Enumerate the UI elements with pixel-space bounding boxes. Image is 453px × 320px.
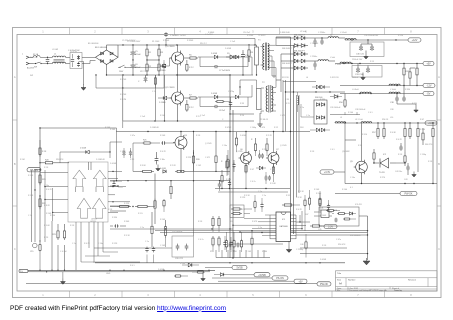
svg-text:Q C945: Q C945 — [236, 151, 243, 153]
svg-text:R 4.7K: R 4.7K — [46, 189, 53, 191]
svg-text:R 510: R 510 — [286, 195, 291, 197]
resistor R78 — [154, 75, 156, 88]
svg-text:R 2.2: R 2.2 — [286, 103, 291, 105]
svg-text:D 4148: D 4148 — [110, 163, 116, 165]
aux resistor R76 — [221, 170, 223, 188]
svg-text:Q5: Q5 — [350, 161, 354, 163]
svg-text:C 2200uF: C 2200uF — [310, 43, 319, 45]
wire horizontal mid — [123, 75, 254, 122]
svg-text:C20 1000uF: C20 1000uF — [172, 231, 183, 233]
svg-text:-5V: -5V — [427, 93, 431, 96]
svg-text:R 5.1K: R 5.1K — [124, 235, 131, 237]
svg-text:R 1K: R 1K — [310, 151, 315, 153]
svg-text:L2 5uH: L2 5uH — [300, 31, 307, 33]
svg-text:File:: File: — [337, 290, 341, 292]
opto coupler U1 — [314, 208, 332, 218]
svg-text:R 2.7K: R 2.7K — [266, 135, 273, 137]
svg-text:L 10uH: L 10uH — [335, 64, 342, 66]
choke L6 — [340, 62, 351, 63]
diode D6 — [235, 95, 248, 98]
snubber top loop — [164, 32, 255, 46]
resistor R23 — [52, 224, 59, 240]
svg-text:C 47u: C 47u — [336, 239, 341, 241]
svg-text:C5 220uF/200V: C5 220uF/200V — [122, 40, 136, 42]
svg-text:R 15: R 15 — [370, 61, 374, 63]
resistor R61 — [417, 123, 419, 139]
drive stage bottom wires — [215, 180, 290, 192]
svg-text:D 4148: D 4148 — [211, 93, 217, 95]
wire left column — [27, 170, 36, 242]
bulk capacitor C5 — [131, 45, 142, 61]
cap C26 — [260, 198, 263, 212]
svg-text:C43: C43 — [404, 179, 407, 181]
svg-text:C 150p: C 150p — [420, 154, 426, 156]
svg-text:T1: T1 — [258, 40, 261, 42]
wire x110 up — [110, 142, 122, 158]
net label E — [232, 265, 247, 269]
svg-text:R20: R20 — [45, 160, 50, 162]
svg-text:D 4148: D 4148 — [211, 53, 217, 55]
drive transistor Q7 C945 — [266, 132, 280, 173]
svg-text:Drawn by:: Drawn by: — [394, 290, 403, 292]
ground reg — [412, 172, 417, 177]
svg-text:R 5.6K: R 5.6K — [44, 225, 51, 227]
svg-text:C5: C5 — [135, 51, 138, 53]
svg-text:D 4148: D 4148 — [158, 269, 164, 271]
resistor bank R41 — [225, 232, 227, 252]
svg-text:PW-OK: PW-OK — [404, 193, 412, 196]
svg-text:D18: D18 — [300, 127, 303, 129]
svg-text:+5V: +5V — [298, 280, 303, 283]
wire +12V rail — [345, 39, 408, 40]
mag-amp coil L4 — [290, 92, 299, 112]
cap C17 — [110, 224, 126, 227]
net label +5V — [423, 61, 434, 65]
svg-text:C20 C21: C20 C21 — [175, 258, 184, 260]
svg-text:R9: R9 — [251, 52, 254, 54]
svg-text:L1: L1 — [54, 54, 57, 56]
svg-text:R25: R25 — [143, 140, 146, 142]
svg-text:2: 2 — [94, 29, 96, 33]
ground +5V — [361, 73, 366, 80]
choke L5 — [345, 39, 356, 40]
net label PW-OK — [335, 191, 417, 195]
filter cap C12 — [320, 37, 323, 45]
AC selector switch SW2 — [118, 65, 130, 73]
T2 aux winding rect — [257, 89, 262, 110]
svg-text:R 270: R 270 — [380, 177, 385, 179]
svg-text:C 2200u: C 2200u — [310, 56, 317, 58]
svg-text:C 1nF: C 1nF — [140, 116, 146, 118]
base resistor R7 — [184, 95, 198, 100]
svg-text:IC2: IC2 — [383, 154, 387, 156]
svg-text:C 2200u: C 2200u — [318, 32, 325, 34]
transistor Q1 C3039 — [165, 45, 184, 75]
resistor R29 — [154, 174, 156, 225]
svg-text:2: 2 — [94, 293, 96, 297]
svg-text:R 10K: R 10K — [316, 193, 322, 195]
svg-text:C 10n: C 10n — [350, 177, 355, 179]
rectifier D12 pair — [281, 51, 308, 56]
PWM IC1 KA7500B — [276, 212, 291, 242]
svg-text:C103: C103 — [118, 187, 123, 189]
svg-text:R 56K: R 56K — [110, 129, 116, 131]
drive cap C51 — [261, 153, 264, 158]
net label -12V — [423, 83, 435, 87]
svg-text:R 5.1K: R 5.1K — [298, 191, 305, 193]
wire opamp top — [39, 128, 40, 242]
drive resistor R70 — [251, 138, 257, 156]
svg-text:L: L — [22, 54, 24, 56]
net label PW-OK left — [19, 269, 28, 273]
svg-text:PS-ON: PS-ON — [276, 277, 284, 280]
svg-text:L10: L10 — [390, 117, 393, 119]
resistor bank R43 — [240, 232, 242, 252]
resistor R24 — [63, 224, 65, 240]
svg-text:R 2.2: R 2.2 — [189, 67, 194, 69]
snubber loop C7 — [200, 57, 248, 72]
drive transistor Q6 C945 — [239, 132, 252, 173]
ground +12V — [364, 51, 369, 59]
cap C27 — [327, 200, 330, 212]
svg-text:T2 EE-19: T2 EE-19 — [260, 119, 268, 121]
svg-text:R 8.2K: R 8.2K — [44, 205, 51, 207]
svg-text:R 47K: R 47K — [252, 221, 258, 223]
opamp lead wires down — [76, 222, 172, 270]
svg-text:R 4.7K: R 4.7K — [160, 151, 167, 153]
svg-text:R 12K: R 12K — [240, 197, 246, 199]
svg-text:R 3.9K: R 3.9K — [140, 165, 147, 167]
sense resistor R57 — [372, 123, 379, 139]
wire opamp outputs — [110, 180, 130, 211]
svg-text:SW: SW — [34, 67, 37, 69]
svg-text:GND: GND — [106, 273, 111, 275]
svg-text:R 39: R 39 — [240, 103, 244, 105]
diode D2 — [198, 53, 235, 59]
resistor R19 — [39, 140, 47, 157]
transistor Q3 C945 — [173, 132, 188, 172]
svg-text:+12V: +12V — [412, 39, 418, 42]
wire T2 secondary — [271, 80, 276, 111]
ground bottom — [201, 272, 206, 281]
X capacitor C1 — [46, 57, 50, 65]
net label -5V — [423, 91, 434, 95]
svg-text:4: 4 — [199, 29, 201, 33]
svg-text:R 4.7K: R 4.7K — [84, 243, 91, 245]
svg-text:R26: R26 — [196, 159, 201, 161]
ground standby — [363, 258, 370, 265]
resistor R34 — [218, 216, 220, 232]
svg-text:Size: Size — [337, 280, 342, 282]
rectifier D16 pair — [286, 91, 346, 92]
svg-text:R 220: R 220 — [262, 149, 267, 151]
load resistor R53 — [403, 64, 410, 86]
svg-text:B: B — [14, 162, 16, 166]
opamp left pins — [40, 173, 68, 213]
svg-text:2200uF 10V: 2200uF 10V — [352, 59, 363, 61]
svg-text:+5V: +5V — [426, 63, 431, 66]
svg-text:R56 1K: R56 1K — [382, 119, 389, 121]
cap C16 — [112, 181, 115, 187]
wire x193 — [193, 150, 195, 236]
resistor R26 — [192, 132, 200, 172]
diode D5b — [198, 93, 235, 99]
svg-text:C39 1000uF: C39 1000uF — [330, 107, 341, 109]
resistor R32 — [227, 150, 229, 175]
Y capacitors C3 C4 — [77, 55, 84, 85]
svg-text:T2: T2 — [262, 82, 265, 84]
wire y229 — [110, 228, 233, 229]
snubber resistor R9 — [248, 46, 254, 62]
neg rail resistor R56 — [339, 94, 346, 109]
svg-text:C:\Documents and Settings\ATX-: C:\Documents and Settings\ATX-PSU\Design… — [347, 289, 387, 292]
resistor R39 — [326, 209, 340, 211]
filter cap C11 — [313, 38, 316, 47]
svg-text:R3: R3 — [161, 52, 164, 54]
divider box2 — [230, 205, 252, 218]
svg-text:R 100: R 100 — [348, 112, 353, 114]
drive resistor R72 — [245, 164, 247, 181]
resistor R34b — [218, 236, 220, 252]
wire vertical rail D — [293, 45, 295, 234]
resistor R62 — [422, 128, 424, 145]
drive resistor R71 — [266, 138, 268, 156]
ground left bottom — [60, 272, 65, 284]
net label 3.3V right — [324, 224, 337, 228]
svg-text:+5VSB: +5VSB — [258, 274, 266, 277]
chassis ground — [81, 85, 86, 91]
svg-text:3.3V: 3.3V — [328, 226, 333, 229]
svg-text:SBL3040PT: SBL3040PT — [294, 51, 306, 53]
bridge rectifier BD1 GBU606 — [95, 47, 118, 65]
svg-text:R 22K: R 22K — [124, 203, 130, 205]
load resistor R54 — [409, 68, 415, 86]
svg-text:4: 4 — [199, 293, 201, 297]
svg-text:C15: C15 — [30, 251, 33, 253]
wire opamp feed — [52, 221, 65, 270]
net label +3.3V — [425, 121, 437, 125]
svg-text:C 4.7u: C 4.7u — [198, 239, 204, 241]
svg-text:KA7500B: KA7500B — [280, 225, 289, 228]
drive cap C50 — [258, 150, 261, 159]
svg-text:R 1K: R 1K — [44, 167, 49, 169]
caps C24 — [218, 181, 221, 191]
aux feed components — [215, 97, 232, 110]
diode D21 — [214, 273, 230, 276]
T2 ground — [257, 113, 262, 126]
svg-text:R 0.1: R 0.1 — [130, 265, 135, 267]
resistor R31 — [215, 132, 217, 172]
svg-text:L9 2.2uH: L9 2.2uH — [355, 119, 363, 121]
filter cap C13 — [313, 61, 316, 70]
ground neg rails — [397, 104, 418, 112]
svg-text:R 1%: R 1% — [240, 209, 245, 211]
svg-text:L: L — [290, 99, 291, 101]
svg-text:R 100: R 100 — [160, 115, 165, 117]
wire vertical rail A — [229, 75, 231, 258]
svg-text:L 6.8uH: L 6.8uH — [352, 89, 359, 91]
net cascade wires — [205, 268, 294, 282]
net label C — [294, 279, 307, 283]
resistor R27 — [140, 168, 186, 173]
wire IC left pins — [232, 215, 270, 235]
diode D20 — [182, 263, 199, 267]
svg-text:C 4.7uF: C 4.7uF — [60, 251, 68, 253]
svg-text:R 470K: R 470K — [120, 79, 127, 81]
rectifier D13 pair — [281, 59, 308, 63]
T1 aux winding rect — [255, 47, 259, 65]
svg-text:C 1n2: C 1n2 — [200, 115, 205, 117]
svg-text:A4: A4 — [339, 283, 343, 286]
switch SW1 — [33, 62, 46, 69]
component value labels — [20, 31, 433, 275]
svg-text:C 471: C 471 — [280, 115, 285, 117]
svg-text:C 0.1: C 0.1 — [330, 149, 335, 151]
resistor R63 — [432, 123, 434, 184]
svg-text:R 10K: R 10K — [28, 175, 34, 177]
svg-text:R 470K: R 470K — [225, 127, 232, 129]
standby IC3 parts — [332, 210, 356, 222]
svg-text:1000uF: 1000uF — [352, 77, 359, 79]
svg-text:Q C945: Q C945 — [205, 143, 212, 145]
wire standby vertical — [359, 216, 368, 260]
svg-text:R 1K: R 1K — [196, 135, 201, 137]
svg-text:R57: R57 — [372, 132, 377, 134]
svg-text:C 1n: C 1n — [258, 191, 262, 193]
svg-text:R 330: R 330 — [50, 215, 55, 217]
resistor R20 — [40, 160, 69, 164]
resistor R21b — [39, 240, 41, 270]
neg rail caps — [390, 86, 406, 105]
rectifier D10 pair — [276, 35, 308, 40]
transistor Q2 C3039 — [165, 75, 184, 121]
divider resistor R3 — [147, 45, 164, 61]
op-amp box LM339 — [68, 162, 108, 222]
svg-text:D 4148: D 4148 — [80, 148, 86, 150]
svg-text:+3.3V: +3.3V — [324, 171, 331, 174]
svg-text:R5: R5 — [189, 55, 192, 57]
svg-text:R 120: R 120 — [398, 35, 403, 37]
svg-text:C6: C6 — [135, 64, 138, 66]
svg-text:R 330: R 330 — [405, 89, 410, 91]
wire +5V rail — [335, 63, 423, 64]
wire primary bottom — [242, 58, 257, 76]
bus primary return — [107, 74, 253, 75]
drive resistor R73 — [272, 164, 274, 183]
base resistor R25 — [133, 140, 174, 145]
svg-text:5: 5 — [252, 29, 254, 33]
svg-text:C10 2n2: C10 2n2 — [243, 32, 250, 34]
net label A — [254, 273, 270, 277]
svg-text:Q C945: Q C945 — [280, 145, 287, 147]
svg-text:D 4148: D 4148 — [225, 48, 231, 50]
svg-text:3: 3 — [147, 293, 149, 297]
svg-text:C8 2n2: C8 2n2 — [219, 110, 225, 112]
svg-text:C: C — [138, 81, 140, 83]
wire primary top — [248, 44, 256, 47]
resistor R60 — [409, 123, 411, 139]
svg-text:F1 5A: F1 5A — [33, 53, 39, 56]
bleed resistor R2 — [146, 58, 152, 75]
svg-text:R 15K: R 15K — [28, 195, 34, 197]
svg-text:R 1K: R 1K — [322, 245, 327, 247]
wire -5V rail — [340, 93, 423, 94]
svg-text:R 510: R 510 — [362, 134, 367, 136]
opamp inner bars — [76, 162, 104, 221]
wire drive node — [248, 57, 252, 97]
cap C19 pair — [122, 148, 132, 158]
divider resistor R4 — [158, 58, 164, 75]
wire vertical rail F — [298, 95, 300, 193]
wire T2 primary — [239, 80, 264, 114]
svg-text:SW: SW — [30, 75, 33, 77]
wire standby rails — [155, 230, 368, 236]
svg-text:Q2 C3039: Q2 C3039 — [165, 87, 175, 89]
svg-text:D 4148: D 4148 — [240, 135, 246, 137]
svg-text:R1: R1 — [149, 52, 152, 54]
svg-text:R 10K: R 10K — [314, 189, 320, 191]
wire mid bus2 — [39, 127, 116, 131]
svg-text:C 1n: C 1n — [270, 169, 274, 171]
rectifier D14 pair — [281, 66, 308, 70]
svg-text:C 10n: C 10n — [44, 185, 49, 187]
svg-text:C45: C45 — [318, 229, 321, 231]
svg-text:C 10n: C 10n — [160, 159, 165, 161]
bottom bus 2 — [28, 270, 216, 271]
svg-text:L 3.3uH: L 3.3uH — [340, 32, 347, 34]
svg-text:R 1K: R 1K — [108, 209, 113, 211]
TL431 IC2 — [373, 154, 396, 174]
svg-text:C: C — [14, 247, 16, 251]
svg-text:Number: Number — [348, 279, 356, 282]
svg-text:R 4.7K: R 4.7K — [296, 209, 303, 211]
base resistor R6 — [186, 60, 194, 72]
standby resistor R90 — [304, 195, 306, 231]
wire standby bottom — [300, 253, 368, 254]
drive cap C52 — [265, 172, 268, 184]
cap box C20 C21 — [172, 236, 194, 260]
svg-text:0.1: 0.1 — [350, 187, 353, 189]
svg-text:R 2.2K: R 2.2K — [170, 165, 177, 167]
diode D3 — [235, 55, 248, 58]
divider caps — [399, 143, 409, 175]
svg-text:R50 47K: R50 47K — [338, 244, 346, 246]
svg-text:C38 1000uF: C38 1000uF — [355, 109, 366, 111]
PS-ON capsule — [27, 168, 41, 172]
IC1 pins — [270, 215, 296, 239]
svg-text:C 103: C 103 — [246, 251, 251, 253]
feedback resistor R74 — [235, 132, 237, 152]
svg-text:R 1.8K: R 1.8K — [270, 183, 277, 185]
snubber cap C10 — [241, 50, 250, 62]
caps C25b — [229, 237, 232, 250]
rectifier D11 pair — [276, 44, 308, 48]
op-amp U2B — [93, 170, 106, 186]
comb below IC — [216, 250, 270, 258]
svg-text:R 2.2: R 2.2 — [189, 107, 194, 109]
svg-text:R 4.3K: R 4.3K — [390, 132, 397, 134]
svg-text:R 470: R 470 — [260, 127, 265, 129]
svg-text:5: 5 — [252, 293, 254, 297]
wire AC to bridge — [78, 57, 96, 65]
svg-text:R 680: R 680 — [262, 251, 267, 253]
wire sec taps — [272, 37, 291, 92]
svg-text:C 0.1: C 0.1 — [368, 112, 373, 114]
resistor R83 — [164, 220, 166, 247]
resistor R45 — [305, 234, 307, 258]
standby transformer T3 area box — [319, 207, 359, 226]
net label D — [317, 282, 331, 286]
